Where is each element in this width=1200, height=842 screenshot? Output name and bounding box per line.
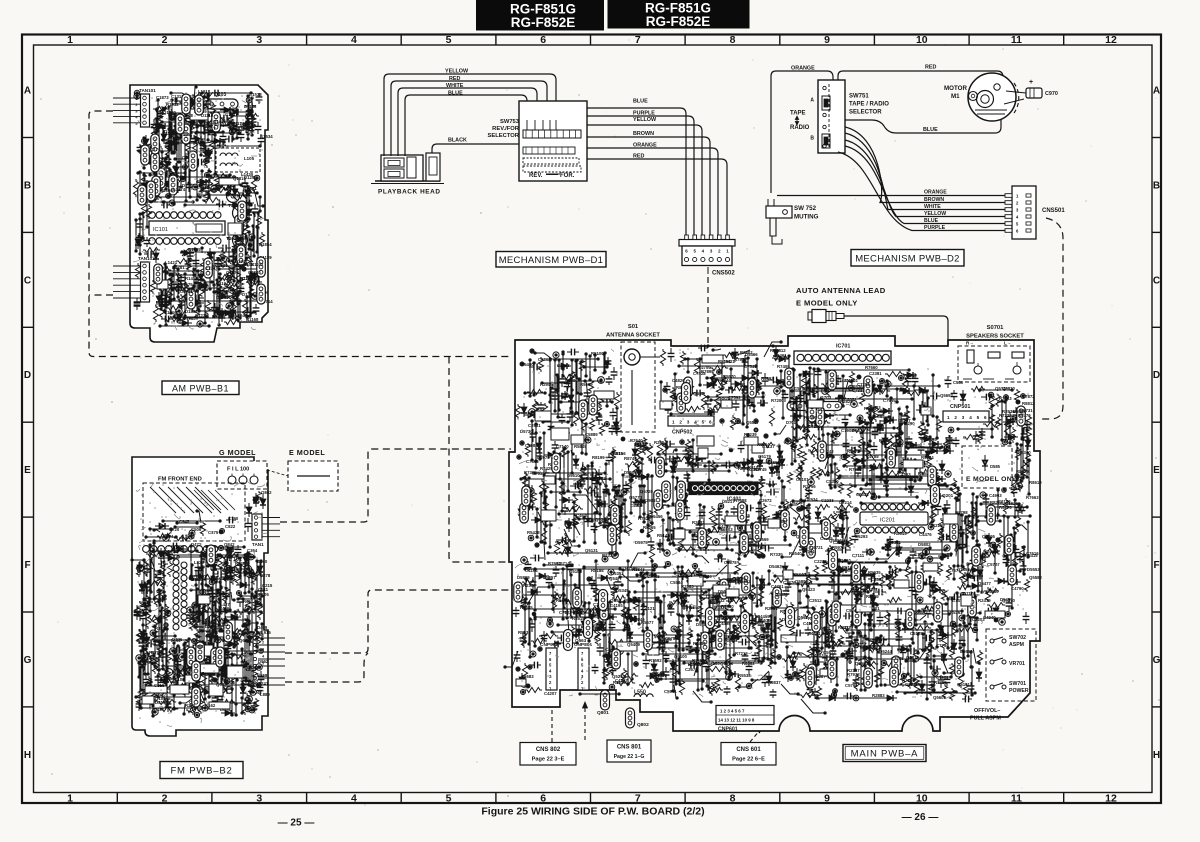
label box MECHANISM PWB-D2	[851, 250, 964, 267]
svg-text:R5570: R5570	[723, 374, 736, 379]
svg-text:C4788: C4788	[866, 454, 879, 459]
svg-text:SELECTOR: SELECTOR	[488, 133, 520, 139]
svg-text:L498: L498	[154, 598, 164, 603]
svg-text:C191: C191	[154, 707, 165, 712]
transistor Q561	[829, 550, 838, 571]
svg-text:C: C	[1153, 275, 1160, 286]
svg-text:D: D	[1153, 370, 1160, 381]
svg-text:SW751: SW751	[849, 94, 869, 100]
svg-text:WHITE: WHITE	[924, 204, 941, 210]
svg-text:C7245: C7245	[891, 656, 904, 661]
svg-text:REV./FOR: REV./FOR	[492, 126, 520, 132]
svg-text:D5809: D5809	[517, 575, 530, 580]
svg-text:CNS501: CNS501	[1042, 208, 1065, 214]
wire PURPLE (SW751 to CNS501)	[838, 152, 1009, 231]
wire antenna lead to main board	[844, 316, 948, 376]
svg-text:R1685: R1685	[188, 247, 201, 252]
svg-text:L550: L550	[634, 690, 646, 696]
svg-text:D5553: D5553	[1027, 567, 1040, 572]
svg-text:8: 8	[730, 793, 736, 805]
svg-text:C162: C162	[205, 703, 216, 708]
svg-text:C7176: C7176	[963, 591, 976, 596]
svg-text:E MODEL ONLY: E MODEL ONLY	[966, 476, 1021, 483]
svg-text:Q5100: Q5100	[674, 654, 688, 659]
svg-text:C7905: C7905	[565, 378, 578, 383]
svg-text:C4164: C4164	[525, 568, 538, 573]
model number title block right	[608, 0, 750, 29]
svg-text:CNS 801: CNS 801	[617, 745, 642, 751]
svg-text:Q5347: Q5347	[595, 517, 609, 522]
transistor Q564	[584, 618, 593, 639]
svg-text:R8645: R8645	[894, 531, 907, 536]
svg-text:R2177: R2177	[841, 625, 854, 630]
connector TAN3 (FM)	[258, 677, 285, 679]
svg-text:C7982: C7982	[525, 443, 538, 448]
svg-text:S01: S01	[628, 324, 639, 330]
dashed lead from CNS801 box to CNP801	[584, 708, 586, 740]
svg-text:C1873: C1873	[156, 95, 169, 100]
reference box CNS802	[520, 743, 576, 766]
svg-text:12: 12	[1105, 34, 1117, 46]
svg-text:ASPM: ASPM	[1009, 642, 1024, 648]
svg-text:YELLOW: YELLOW	[445, 69, 469, 75]
svg-text:D119: D119	[191, 577, 202, 582]
board outline FM PWB-B2	[132, 457, 268, 736]
svg-text:R7660: R7660	[865, 365, 878, 370]
svg-text:6: 6	[540, 34, 546, 46]
svg-text:R8837: R8837	[768, 680, 781, 685]
wire ORANGE (SW752 to SW751)	[771, 71, 833, 193]
E model circuit dashed box D565	[962, 446, 1012, 488]
svg-text:R7588: R7588	[734, 498, 747, 503]
svg-text:C569: C569	[203, 620, 214, 625]
svg-text:C2861: C2861	[538, 357, 551, 362]
svg-text:4: 4	[351, 34, 357, 46]
switch SW753 body	[519, 101, 587, 181]
svg-text:BROWN: BROWN	[633, 131, 654, 137]
svg-text:R5275: R5275	[999, 505, 1012, 510]
svg-text:BLUE: BLUE	[633, 99, 648, 105]
svg-text:C2512: C2512	[809, 598, 822, 603]
board outline AM PWB-B1	[130, 85, 268, 342]
svg-text:R2828: R2828	[840, 399, 853, 404]
svg-text:FM PWB–B2: FM PWB–B2	[170, 766, 232, 777]
svg-text:D5436: D5436	[714, 605, 727, 610]
svg-text:Q5655: Q5655	[767, 460, 781, 465]
svg-text:R2479: R2479	[978, 598, 991, 603]
svg-text:C375: C375	[208, 530, 219, 535]
wire RED (SW751 to motor M1)	[838, 71, 1003, 87]
svg-text:R2883: R2883	[681, 584, 694, 589]
svg-text:CNP601: CNP601	[718, 727, 738, 733]
svg-text:6: 6	[984, 415, 987, 420]
svg-text:R5882: R5882	[593, 476, 606, 481]
switch contacts SW702/VR701/SW701	[990, 639, 994, 643]
svg-text:R2495: R2495	[924, 437, 937, 442]
IC IC201	[861, 504, 867, 510]
svg-text:Q5770: Q5770	[629, 495, 643, 500]
svg-text:R8762: R8762	[784, 440, 797, 445]
svg-text:C5101: C5101	[796, 477, 809, 482]
svg-text:2: 2	[162, 793, 168, 805]
svg-text:D1854: D1854	[259, 242, 272, 247]
label CNS502	[707, 267, 709, 274]
svg-text:Q5527: Q5527	[746, 420, 760, 425]
svg-text:D5975: D5975	[537, 455, 550, 460]
svg-text:D5480: D5480	[521, 362, 534, 367]
svg-text:R7685: R7685	[520, 605, 533, 610]
svg-text:M1: M1	[951, 93, 960, 100]
svg-text:L1530: L1530	[213, 256, 226, 261]
diode D701	[790, 415, 804, 417]
diode D585	[984, 455, 986, 471]
svg-text:D5456: D5456	[650, 514, 663, 519]
svg-text:D822: D822	[246, 667, 257, 672]
dashed harness branch down to MAIN board row F	[449, 357, 511, 563]
svg-text:C7549: C7549	[744, 364, 757, 369]
svg-text:Q1699: Q1699	[163, 110, 177, 115]
svg-text:R7366: R7366	[902, 678, 915, 683]
svg-text:R7658: R7658	[692, 658, 705, 663]
svg-text:POWER: POWER	[1009, 688, 1029, 694]
svg-text:C7754: C7754	[936, 643, 949, 648]
svg-text:Q842: Q842	[224, 542, 235, 547]
svg-text:C4761: C4761	[771, 584, 784, 589]
wire BLUE (SW753 to CNS502)	[587, 108, 686, 236]
dashed harness branch FM TAN3 to bus	[285, 653, 368, 682]
svg-text:C970: C970	[1045, 91, 1058, 97]
svg-text:R8625: R8625	[613, 680, 626, 685]
svg-text:RED: RED	[449, 76, 460, 82]
scan noise AM board	[136, 93, 262, 326]
svg-text:L427: L427	[220, 602, 230, 607]
svg-text:12: 12	[1105, 793, 1117, 805]
playback head PH	[375, 180, 440, 182]
svg-text:WHITE: WHITE	[446, 83, 464, 89]
transistor Q562	[786, 607, 795, 628]
dashed link FIL100 to E model box	[267, 470, 288, 476]
svg-text:D1575: D1575	[180, 282, 193, 287]
svg-text:R5993: R5993	[761, 376, 774, 381]
svg-text:C7111: C7111	[852, 553, 865, 558]
svg-text:5: 5	[446, 34, 452, 46]
svg-text:R5340: R5340	[1018, 450, 1031, 455]
svg-text:C5293: C5293	[855, 534, 868, 539]
svg-text:Q561: Q561	[840, 558, 852, 563]
svg-text:R7755: R7755	[934, 680, 947, 685]
svg-text:C7337: C7337	[852, 388, 865, 393]
svg-text:D5666: D5666	[960, 649, 973, 654]
svg-text:R2632: R2632	[692, 520, 705, 525]
svg-text:C506: C506	[191, 527, 202, 532]
svg-text:R923: R923	[235, 561, 246, 566]
svg-text:C7276: C7276	[783, 580, 796, 585]
svg-text:R8744: R8744	[624, 456, 637, 461]
svg-text:R7640: R7640	[630, 438, 643, 443]
svg-text:R8619: R8619	[1029, 480, 1042, 485]
svg-text:1: 1	[947, 415, 950, 420]
svg-text:Q1703: Q1703	[150, 147, 164, 152]
svg-text:C720: C720	[169, 527, 180, 532]
svg-text:E: E	[24, 465, 31, 476]
svg-text:R8765: R8765	[866, 594, 879, 599]
svg-text:R8199: R8199	[592, 455, 605, 460]
connector CNP601	[716, 706, 774, 725]
svg-text:Q802: Q802	[637, 722, 649, 728]
svg-text:MECHANISM PWB–D1: MECHANISM PWB–D1	[499, 255, 604, 266]
svg-text:REV.: REV.	[529, 173, 543, 179]
svg-text:R661: R661	[243, 599, 254, 604]
svg-text:C5612: C5612	[823, 650, 836, 655]
svg-text:C1604: C1604	[160, 188, 173, 193]
svg-text:C7908: C7908	[841, 428, 854, 433]
svg-text:C1650: C1650	[207, 306, 220, 311]
svg-text:Figure 25 WIRING SIDE OF P.W.: Figure 25 WIRING SIDE OF P.W. BOARD (2/2…	[481, 806, 704, 818]
svg-text:R7272: R7272	[865, 587, 878, 592]
trimmer CF101	[227, 190, 240, 203]
connector TAN1 (FM)	[252, 514, 262, 540]
svg-text:BLUE: BLUE	[924, 218, 939, 224]
svg-text:R2429: R2429	[540, 466, 553, 471]
svg-text:IC101: IC101	[153, 227, 168, 233]
svg-text:Q801: Q801	[597, 710, 609, 716]
svg-text:D840: D840	[257, 559, 268, 564]
svg-text:2: 2	[262, 641, 264, 645]
svg-text:C7140: C7140	[556, 444, 569, 449]
svg-text:C2381: C2381	[869, 371, 882, 376]
svg-text:BLUE: BLUE	[448, 91, 463, 97]
svg-text:D5490: D5490	[1000, 597, 1013, 602]
svg-text:C1141: C1141	[225, 112, 238, 117]
svg-text:C: C	[24, 275, 31, 286]
svg-text:C7214: C7214	[839, 500, 852, 505]
IC IC401	[689, 482, 758, 495]
wire YELLOW (SW753 to CNS502)	[587, 125, 702, 236]
svg-text:YELLOW: YELLOW	[633, 117, 657, 123]
svg-text:C5175: C5175	[910, 631, 923, 636]
svg-text:R→: R→	[966, 341, 974, 346]
svg-text:C4458: C4458	[986, 549, 999, 554]
svg-text:PURPLE: PURPLE	[924, 225, 946, 231]
svg-text:C790: C790	[228, 516, 239, 521]
svg-text:R1194: R1194	[216, 281, 229, 286]
svg-text:R5559: R5559	[909, 477, 922, 482]
svg-text:CNP502: CNP502	[672, 430, 692, 436]
wire BLACK (head to SW753)	[432, 144, 540, 153]
resistor R711	[772, 355, 789, 360]
svg-text:C4476: C4476	[919, 532, 932, 537]
svg-text:C1908: C1908	[180, 289, 193, 294]
reference box CNS801	[607, 740, 651, 762]
svg-text:R325: R325	[155, 626, 166, 631]
svg-text:D776: D776	[172, 637, 183, 642]
svg-text:C618: C618	[167, 549, 178, 554]
svg-text:Q552: Q552	[693, 391, 705, 396]
svg-text:G: G	[24, 655, 32, 666]
svg-text:R5244: R5244	[565, 521, 578, 526]
svg-text:IC201: IC201	[880, 518, 895, 524]
svg-text:Q1978: Q1978	[226, 270, 240, 275]
svg-text:Q5183: Q5183	[569, 569, 583, 574]
svg-text:Q5174: Q5174	[720, 661, 734, 666]
svg-text:11: 11	[1011, 793, 1022, 805]
svg-text:VR701: VR701	[1009, 661, 1025, 667]
svg-text:R2799: R2799	[733, 576, 746, 581]
svg-text:BLUE: BLUE	[923, 127, 938, 133]
svg-text:R2336: R2336	[523, 583, 536, 588]
svg-text:7: 7	[635, 34, 641, 46]
svg-text:C2672: C2672	[685, 667, 698, 672]
svg-text:C5584: C5584	[670, 580, 683, 585]
svg-text:C4640: C4640	[576, 513, 589, 518]
svg-text:C215: C215	[262, 583, 273, 588]
svg-text:C1590: C1590	[197, 179, 210, 184]
svg-text:Q5582: Q5582	[1029, 575, 1043, 580]
svg-text:YELLOW: YELLOW	[924, 211, 946, 217]
connector TAN101	[141, 94, 150, 127]
svg-text:R8382: R8382	[742, 661, 755, 666]
svg-text:FM FRONT END: FM FRONT END	[158, 477, 202, 483]
svg-text:PULL ASPM: PULL ASPM	[970, 716, 1001, 722]
svg-text:OFF/VOL–: OFF/VOL–	[974, 708, 1000, 714]
svg-text:C7190: C7190	[808, 424, 821, 429]
svg-text:C7592: C7592	[728, 395, 741, 400]
svg-text:R7705: R7705	[849, 467, 862, 472]
svg-text:L889: L889	[260, 692, 270, 697]
svg-text:C2367: C2367	[871, 577, 884, 582]
svg-text:C4331: C4331	[868, 638, 881, 643]
svg-text:R5104: R5104	[748, 465, 761, 470]
svg-text:R8532: R8532	[725, 638, 738, 643]
transistor Q551	[599, 590, 608, 611]
scan noise FM board	[136, 484, 263, 722]
svg-text:3: 3	[962, 415, 965, 420]
svg-text:R8978: R8978	[847, 449, 860, 454]
transistor Q201	[931, 485, 940, 506]
transistor Q563	[564, 630, 573, 651]
capacitor C586	[947, 376, 949, 380]
svg-text:RG-F852E: RG-F852E	[511, 15, 576, 30]
svg-text:R8365: R8365	[643, 525, 656, 530]
svg-text:R5609: R5609	[580, 382, 593, 387]
svg-text:R5540: R5540	[789, 551, 802, 556]
svg-text:R5361: R5361	[950, 610, 963, 615]
svg-text:C945: C945	[179, 519, 190, 524]
svg-text:R1781: R1781	[172, 265, 185, 270]
svg-text:R7831: R7831	[734, 357, 747, 362]
svg-text:R2945: R2945	[540, 382, 553, 387]
svg-text:2: 2	[135, 103, 137, 107]
svg-text:C7632: C7632	[712, 598, 725, 603]
svg-text:R5538: R5538	[738, 673, 751, 678]
pad row bottom (FM)	[159, 669, 166, 676]
svg-text:8: 8	[730, 34, 736, 46]
svg-text:C4264: C4264	[731, 420, 744, 425]
svg-text:E MODEL: E MODEL	[289, 448, 325, 457]
svg-text:D5345: D5345	[616, 588, 629, 593]
wire BROWN (SW753 to CNS502)	[587, 137, 710, 236]
svg-text:C4207: C4207	[544, 691, 557, 696]
svg-text:R5100: R5100	[591, 351, 604, 356]
E model option dashed box	[288, 461, 338, 491]
svg-text:C5941: C5941	[664, 689, 677, 694]
svg-text:4: 4	[351, 793, 357, 805]
svg-text:Q5800: Q5800	[795, 579, 809, 584]
svg-text:L105: L105	[244, 156, 255, 161]
wire ORANGE (SW753 to CNS502)	[587, 148, 718, 236]
svg-text:G MODEL: G MODEL	[219, 448, 256, 457]
connector CNP902	[546, 648, 557, 690]
svg-text:C184: C184	[149, 656, 160, 661]
svg-text:C1917: C1917	[203, 126, 216, 131]
board outline MAIN PWB-A	[509, 336, 1040, 731]
component cluster FM front end	[154, 511, 236, 541]
svg-text:R7798: R7798	[955, 510, 968, 515]
svg-text:ORANGE: ORANGE	[924, 190, 947, 196]
svg-text:C7405: C7405	[647, 574, 660, 579]
svg-text:R8198: R8198	[718, 359, 731, 364]
svg-text:Q5217: Q5217	[612, 674, 626, 679]
svg-text:Q201: Q201	[942, 493, 954, 498]
component cluster MAIN board (R2xx-R8xx C2xx-C8xx Q5xx)	[505, 342, 1032, 713]
svg-text:MUTING: MUTING	[794, 214, 819, 221]
svg-text:R5935: R5935	[868, 570, 881, 575]
svg-text:H: H	[24, 750, 31, 761]
dashed harness bus FM TAN1 to MAIN board	[280, 449, 511, 522]
svg-text:D5957: D5957	[543, 575, 556, 580]
svg-text:SELECTOR: SELECTOR	[849, 110, 882, 116]
transistor Q701	[787, 402, 813, 411]
dashed lead CNS502 to CNP502	[708, 277, 716, 412]
svg-text:C2981: C2981	[528, 423, 541, 428]
svg-text:R8770: R8770	[1018, 413, 1031, 418]
connector TAN2 (FM)	[258, 637, 285, 639]
svg-text:Q5181: Q5181	[888, 540, 902, 545]
svg-text:Q862: Q862	[261, 490, 272, 495]
svg-text:1: 1	[67, 34, 73, 46]
svg-text:C7806: C7806	[526, 459, 539, 464]
svg-text:— 25 —: — 25 —	[278, 818, 315, 829]
transistor Q552	[682, 383, 691, 404]
transformer T101	[233, 206, 248, 221]
svg-text:S0701: S0701	[987, 325, 1005, 331]
svg-text:AUTO ANTENNA LEAD: AUTO ANTENNA LEAD	[796, 286, 886, 295]
svg-text:C2233: C2233	[821, 498, 834, 503]
svg-text:3: 3	[687, 420, 690, 425]
svg-text:9: 9	[824, 793, 830, 805]
svg-text:ORANGE: ORANGE	[791, 66, 815, 72]
svg-text:R2424: R2424	[836, 378, 849, 383]
svg-text:D1158: D1158	[244, 104, 257, 109]
svg-text:C7502: C7502	[914, 552, 927, 557]
svg-text:D585: D585	[990, 464, 1001, 469]
wire BLUE (SW751 to motor M1)	[845, 110, 1001, 133]
svg-text:Q562: Q562	[797, 615, 809, 620]
svg-text:R8812: R8812	[1022, 401, 1035, 406]
wire WHITE (head to SW753)	[398, 88, 537, 156]
speaker socket pins	[967, 350, 974, 363]
svg-text:10: 10	[916, 793, 928, 805]
svg-text:C5683: C5683	[521, 674, 534, 679]
connector CNP501	[943, 411, 989, 422]
svg-text:R5349: R5349	[793, 572, 806, 577]
dashed harness branch TAN102 to bus	[89, 294, 113, 296]
svg-text:L1918: L1918	[198, 89, 211, 94]
speakers socket S0701 dashed region	[958, 346, 1030, 382]
svg-text:1: 1	[672, 420, 675, 425]
svg-text:R7994: R7994	[548, 561, 561, 566]
svg-text:R5824: R5824	[921, 455, 934, 460]
